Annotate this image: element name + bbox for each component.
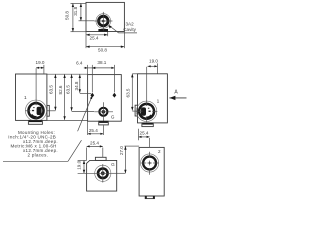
dim 63.5 (left view, line L1) — [49, 74, 57, 110]
port G circle (bottom view) — [94, 164, 111, 182]
left view right side tab — [47, 105, 49, 116]
dim 25.4 (middle view bottom) — [88, 121, 104, 135]
port 1 centerline vertical — [35, 68, 37, 121]
dim 50.8 horizontal (top view bottom) — [86, 32, 124, 53]
right view body outline — [138, 74, 168, 123]
dim 19.0 (right view top) — [148, 58, 159, 74]
middle view body outline — [88, 75, 122, 122]
label 1 (right view) — [157, 99, 160, 105]
svg-text:38.1: 38.1 — [97, 60, 106, 65]
svg-text:25.4: 25.4 — [90, 36, 99, 41]
svg-text:19.0: 19.0 — [36, 60, 45, 65]
port G circle (middle view) — [94, 102, 113, 121]
svg-text:27.0: 27.0 — [119, 146, 124, 155]
label G (bottom view) — [111, 162, 115, 167]
label G (middle view) — [111, 114, 115, 119]
port 1 horizontal centerline + ext to 63.5 dim — [25, 110, 55, 112]
mounting hole diamond right — [113, 93, 117, 98]
dim 25.4 (bottom-middle top) — [87, 141, 103, 161]
svg-text:2 places.: 2 places. — [28, 152, 49, 157]
svg-text:3A2: 3A2 — [126, 21, 135, 26]
svg-text:6.4: 6.4 — [76, 60, 83, 65]
notes underline rule — [3, 160, 68, 162]
svg-text:82.6: 82.6 — [58, 85, 63, 94]
dim 19.0 (left view top) — [36, 60, 45, 74]
svg-text:63.5: 63.5 — [49, 85, 54, 94]
dim 27.0 (bottom-middle right) — [111, 146, 139, 174]
leader 3A2 Cavity — [108, 25, 137, 33]
dim 63.5 (right view left) — [125, 74, 142, 111]
bottom-middle view body outline with chamfer — [87, 160, 117, 191]
svg-text:19.0: 19.0 — [76, 160, 81, 169]
svg-text:63.5: 63.5 — [125, 88, 130, 97]
dim 25.4 (bottom-right top) — [139, 129, 150, 148]
top view body outline — [86, 2, 124, 31]
dim 82.6 (left view, line L2) — [58, 74, 66, 120]
svg-text:G: G — [111, 114, 115, 119]
label 1 (left view) — [24, 95, 27, 101]
leader from notes to left diamond — [78, 96, 93, 132]
svg-text:50.8: 50.8 — [98, 48, 107, 53]
dim 34.8 (middle view, line L4) — [74, 74, 91, 93]
extension lines for 6.4/38.1 — [88, 65, 115, 93]
port 1R horizontal centerline — [136, 110, 157, 112]
top view bottom boss (dark) — [98, 29, 108, 32]
bottom-middle top boss — [95, 157, 106, 160]
dim 25.4 horizontal (top view bottom) — [86, 32, 108, 41]
port 1 circle (left view) — [25, 100, 46, 121]
label 2 (bottom-right view) — [158, 149, 161, 154]
mounting hole diamond left — [90, 93, 94, 98]
view direction arrow A — [169, 90, 186, 101]
cavity port circle — [94, 12, 112, 31]
bottom-right view body outline — [139, 147, 164, 196]
svg-text:25.4: 25.4 — [140, 131, 149, 136]
shared top extension line — [47, 73, 88, 75]
svg-text:1: 1 — [24, 95, 27, 101]
svg-text:50.8: 50.8 — [65, 11, 70, 20]
middle view bottom boss — [99, 121, 109, 125]
port 1R centerline vertical — [146, 67, 148, 122]
left view bottom boss — [28, 120, 42, 124]
port 2 circle — [141, 152, 159, 175]
svg-text:G: G — [111, 162, 115, 167]
svg-text:19.0: 19.0 — [149, 58, 158, 63]
text 3A2 Cavity — [123, 21, 136, 32]
dim 19.0 (bottom-middle left) — [76, 160, 94, 173]
svg-text:Cavity: Cavity — [123, 27, 136, 32]
notes text — [8, 130, 58, 158]
dim 63.5 (middle view, line L3) — [66, 74, 95, 111]
svg-text:34.8: 34.8 — [74, 81, 79, 90]
right view left side tab — [135, 105, 137, 116]
shared bottom extension line — [47, 120, 88, 122]
svg-text:63.5: 63.5 — [66, 85, 71, 94]
right view bottom boss — [142, 123, 153, 127]
dim 50.8 vertical (top view left outer) — [65, 3, 86, 31]
dim 31.8 vertical (top view left inner) — [73, 3, 94, 20]
svg-text:25.4: 25.4 — [90, 141, 99, 146]
leader from notes to bottom view — [68, 140, 82, 161]
port 1 circle (right view) — [136, 101, 156, 121]
dim 6.4 (middle view top) — [76, 60, 95, 69]
bottom-right bottom boss — [145, 196, 154, 199]
svg-text:2: 2 — [158, 149, 161, 154]
left view body outline — [16, 74, 47, 120]
dim 38.1 (middle view top, between diamonds) — [92, 60, 114, 69]
svg-text:25.4: 25.4 — [89, 128, 98, 133]
svg-text:31.8: 31.8 — [73, 6, 78, 15]
svg-text:1: 1 — [157, 99, 160, 105]
